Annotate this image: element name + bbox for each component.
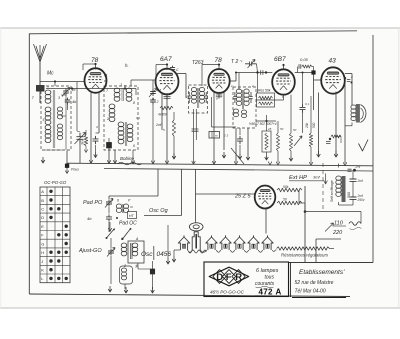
output transformer core [355,104,357,123]
mains switch [349,222,361,226]
svg-text:a: a [152,97,154,101]
address underline [292,297,346,299]
svg-text:A: A [41,189,44,194]
junction dots T2 bus [256,71,258,73]
surge resistor 2 [277,201,302,205]
chassis bus lower [104,169,373,172]
svg-text:5: 5 [43,118,45,122]
L2 top secondary [126,88,132,93]
wire L2 bottom to bus [114,150,116,164]
V2 bias components [172,120,175,136]
L2 bottom second col [127,124,133,129]
phones jack [359,140,369,152]
wire exthp [287,184,289,187]
wire 43 grid return [335,92,337,155]
wire bus to padder [157,169,159,196]
svg-text:50: 50 [280,127,284,131]
osc transformer box [128,241,144,263]
svg-text:J: J [41,259,43,264]
svg-text:G: G [41,241,44,246]
wire OT bottom [351,123,353,126]
antenna coupling condenser Mc [37,86,45,92]
tube V5 43 [321,67,345,93]
antenna [34,44,47,62]
grid cap wire V3 [218,65,220,70]
svg-text:2mf: 2mf [155,123,162,127]
wire T2 to 6B7 [256,99,284,101]
wire osc bottom [124,284,126,289]
det resistor 2 [289,133,292,151]
svg-text:Res 50k: Res 50k [258,89,271,93]
cap below V2 [164,93,171,100]
AVC resistor [276,133,279,151]
wire V2 plate to T263 [175,73,186,75]
svg-text:0,05: 0,05 [300,57,309,62]
svg-text:2mf: 2mf [357,179,364,183]
cap below V3 [216,92,222,99]
svg-text:6: 6 [121,237,123,241]
svg-text:2: 2 [156,100,159,104]
maker box frame [204,262,289,297]
trimmer 4c antenna [63,89,69,96]
wire V2 cathode [161,93,163,130]
svg-text:46½ PO-GO-OC: 46½ PO-GO-OC [210,289,245,295]
svg-text:500: 500 [312,122,316,128]
filter choke (self de filtrage) [336,176,341,180]
maker box inner line [204,296,289,298]
svg-text:25: 25 [267,127,272,131]
svg-text:F: F [226,272,232,283]
svg-text:T 2 ~: T 2 ~ [231,59,243,65]
svg-text:H: H [41,250,44,255]
chassis bus upper [67,163,374,166]
RF coil box L2 (dashed) [104,86,138,150]
junction B+ [304,210,307,213]
svg-text:Osc: Osc [141,251,153,258]
svg-text:2½: 2½ [355,165,361,169]
padding cap antenna [65,98,71,105]
svg-text:Self en filtrage: Self en filtrage [330,180,334,202]
wire L1 right leads [61,94,66,96]
tube V2 6A7 [156,69,179,95]
diode load resistor box [257,93,275,107]
tube V6 25Z5 [255,186,276,209]
T2 grid trimmer [245,62,257,67]
svg-text:0456: 0456 [157,251,172,258]
svg-text:4c: 4c [72,88,76,92]
cathode resistor V1 [84,135,87,146]
tower base zigzag [189,250,207,253]
T2 trimmer right [249,92,252,103]
T2 trimmer left [233,92,236,103]
heater interconnects [188,250,193,252]
svg-text:2: 2 [251,84,254,88]
L1 secondary winding [45,107,51,112]
svg-text:472: 472 [259,288,273,297]
svg-text:Mc: Mc [47,71,54,77]
L1 coupling winding upper [57,107,62,111]
top cap 2b [348,169,352,171]
padding cap RF [150,98,156,105]
filter cap 1 [350,179,357,181]
wire V3 cathode [213,92,215,164]
resistor grid 43 [297,67,299,73]
T263 trimmer right [205,92,208,103]
svg-text:D: D [216,272,223,283]
svg-text:B: B [41,198,44,203]
grid trimmer V2 [170,66,175,72]
osc trimmer GO [108,249,114,256]
wavy line under Bobine [118,162,142,165]
T263 secondary [199,88,204,92]
osc coupling coil [116,204,121,208]
wire V1 screen [98,92,100,134]
svg-text:3mf: 3mf [313,175,321,180]
osc tickler box [120,266,133,284]
pilot lamp [189,223,203,231]
wire 43 plate return [344,83,346,164]
wire T2 down right [247,128,249,155]
arrow voltage sel [325,223,334,232]
wire 43 cathode [318,93,320,155]
wire V3 plate to T2 [230,80,236,82]
ground arrow below L1 [41,157,45,163]
svg-text:½5007 502 5007+4: ½5007 502 5007+4 [249,122,277,126]
L1 tertiary winding [45,125,51,130]
wire V3 screen [223,92,225,150]
ground osc a [108,286,112,292]
L2 mid winding [109,104,115,109]
svg-text:50k: 50k [283,185,289,189]
ground V1 screen [95,145,97,152]
ground heater [172,256,176,262]
svg-text:250v: 250v [357,198,365,202]
svg-text:tous: tous [265,275,275,281]
T263 core [197,88,199,108]
junction chassis [66,151,68,165]
L2 top primary [114,88,120,93]
wire antenna tuning [76,82,78,131]
node square 43 grid [312,71,315,74]
grid cap wire V4 [283,65,285,69]
svg-text:Pad OC: Pad OC [119,221,137,227]
L1 primary winding [45,90,51,95]
wire lamp feed [195,169,197,221]
wire T263 down pair [193,109,195,164]
DFR logo [209,267,249,286]
ground pad oc [108,222,112,232]
T2 core [241,90,243,109]
svg-text:Pous: Pous [71,168,79,172]
svg-text:C: C [41,207,44,212]
speaker bracket [361,105,367,123]
L2 core bottom [125,122,127,146]
svg-text:K: K [41,268,44,273]
osc secondary [132,243,138,248]
svg-text:0,1: 0,1 [305,102,310,106]
junction det [265,120,267,122]
padder cap PO [106,200,112,207]
svg-text:6A7: 6A7 [160,56,172,63]
T2 secondary [244,89,249,93]
L1 core lines [52,90,54,148]
svg-text:Osc Og: Osc Og [149,208,169,214]
svg-text:Bobine: Bobine [120,156,135,161]
svg-text:h.: h. [125,63,129,68]
band switch contact table [40,187,70,283]
wire V2 down [166,93,168,162]
svg-text:6 lampes: 6 lampes [256,268,279,274]
cathode cluster 43 [329,138,331,140]
svg-text:4b: 4b [87,216,92,221]
tube heaters (series) [178,237,189,250]
IF transformer T263 box [189,85,208,113]
svg-text:4b: 4b [72,100,76,104]
label switch squiggle [350,228,362,230]
wire filter right [352,171,354,179]
svg-text:D: D [41,215,44,220]
svg-text:R: R [235,272,242,283]
wire 43 plate to OT [345,73,352,75]
L2 bottom winding [118,122,124,127]
svg-text:Tél Mar 04-00: Tél Mar 04-00 [295,289,326,295]
trimmer 4f RF [150,89,156,96]
svg-text:OC-PO-GO: OC-PO-GO [44,180,67,185]
T263 trimmer left [188,92,191,103]
wire 43 grid [313,74,315,110]
screen bypass cap V1 [93,136,99,144]
wire osc right [152,261,154,289]
ballast resistor [277,247,330,250]
title divider [289,263,291,298]
svg-text:2: 2 [350,75,353,79]
antenna coil box L1 (dashed) [41,86,71,150]
svg-text:Etablissements’: Etablissements’ [299,269,345,276]
svg-text:1: 1 [120,83,122,87]
svg-text:50: 50 [293,128,297,132]
svg-text:50: 50 [283,198,287,202]
svg-text:E: E [41,224,44,229]
tuning gang C2 wire [155,65,157,82]
osc primary [121,243,127,248]
output transformer primary [351,105,356,109]
wire V1 plate to L2 [104,80,107,82]
ground osc c [151,287,155,293]
svg-text:20k: 20k [305,122,309,129]
svg-text:Pad PO: Pad PO [83,200,103,206]
svg-text:52 rue de Maistre: 52 rue de Maistre [295,280,334,286]
svg-text:6: 6 [133,144,135,148]
wire choke top [338,164,340,168]
wire RF caps [152,80,154,90]
svg-text:43: 43 [329,58,337,65]
svg-text:4x500: 4x500 [158,113,167,117]
ground arrowheads at bus [89,160,93,163]
svg-text:6B7: 6B7 [274,56,286,63]
wire osc grid riser [167,224,169,226]
coupling cap L2 bottom [107,143,112,148]
svg-text:25 Z 5: 25 Z 5 [234,194,252,200]
svg-text:110: 110 [334,221,344,227]
T2 lower windings [234,109,239,113]
ground osc b [124,287,128,293]
wire rect to B+ [299,189,302,191]
wire top bus [236,72,272,74]
filter cap 2 [350,197,357,199]
cathode resistor V2 h [160,106,173,109]
plate cap node [344,77,346,79]
wire T2 down left [235,128,237,163]
grid cap wire V2 [166,65,168,70]
divider dashed [322,163,324,211]
knife switch 1 [107,229,115,239]
IF cap T263 [192,129,199,131]
svg-text:220: 220 [332,230,343,236]
ground osc right [167,225,169,258]
svg-text:3: 3 [135,265,137,269]
wire antenna lead-in [39,62,41,85]
cap osc [150,269,154,274]
tuning gang C1 [76,133,83,144]
pilot lamp tower [192,232,200,250]
volume potentiometer [262,131,271,152]
wire V1 cathode [90,92,92,164]
bias box V3 [209,132,220,139]
osc core [130,243,132,259]
wire V3 bias [211,97,213,127]
wire antenna bus 2 [46,88,136,90]
T2 primary [236,89,241,93]
coupling cap on bus [261,70,263,75]
grid cap wire V1 [95,65,97,70]
svg-text:A: A [276,288,282,297]
wire 25Z5 heater [265,207,267,233]
wire antenna to coil [39,91,41,103]
wire T263 to V3 grid [201,65,203,87]
L2 core top [121,88,123,101]
padder cap OC [106,214,112,221]
cap detector [237,136,243,144]
pot arrow [294,136,302,146]
svg-text:78: 78 [215,57,223,64]
heater chain wire [174,249,180,251]
svg-text:6: 6 [117,199,119,203]
svg-text:0,1: 0,1 [136,116,141,120]
tube V4 6B7 [272,69,295,94]
tube V3 78 [208,69,229,93]
osc tickler coil [121,268,126,272]
surge resistor 1 [277,188,302,192]
arrow ext hp [324,174,328,185]
mains tap line [316,238,341,240]
mains line [305,211,362,213]
screen resistor 43 [309,133,312,147]
L1 coupling winding lower [57,124,62,128]
svg-text:3xx: 3xx [81,140,85,145]
knife switch 2 [123,228,132,239]
IF transformer T2 box [233,87,256,128]
wire L2 tap to bus [132,150,134,164]
ballast resistor wire [272,250,276,252]
svg-text:8: 8 [133,101,135,105]
svg-text:M.: M. [104,74,108,78]
wire det diag [231,148,244,164]
svg-text:Ajust-GO: Ajust-GO [78,248,102,254]
coupling cap det [300,104,306,112]
border frame [29,32,200,294]
wire C1 leads [79,141,81,164]
L1 inner taps [47,86,49,88]
svg-text:Ext HP: Ext HP [289,175,307,181]
wire padder [108,169,110,196]
svg-text:3: 3 [58,96,60,100]
svg-text:2: 2 [106,117,109,121]
T263 primary [191,88,196,92]
tube V1 78 [85,68,107,93]
svg-text:78: 78 [91,57,99,64]
wire osc grid L [144,215,182,217]
